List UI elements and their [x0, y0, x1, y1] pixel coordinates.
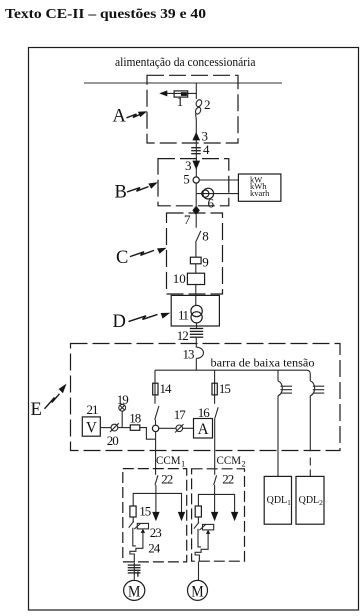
- label C zigzag arrow: [130, 248, 167, 257]
- wire: V box to fuse 20: [100, 427, 111, 429]
- QDL1 box: [264, 476, 291, 524]
- svg-text:6: 6: [208, 196, 215, 211]
- voltmeter box 21: [82, 417, 100, 436]
- middle spare arrow (CCM1): [152, 512, 159, 521]
- disconnect switch 8: [196, 231, 201, 242]
- wire: QDL feeder 2 to QDL2: [309, 396, 311, 477]
- svg-text:1: 1: [177, 94, 184, 109]
- fuse 15 (CCM1): [130, 506, 136, 517]
- wire: fuse to contactor (CCM1): [132, 517, 134, 522]
- bus bar: barra de baixa tensão: [155, 370, 310, 381]
- svg-text:M: M: [191, 584, 203, 601]
- drawout contact 13: [196, 347, 203, 358]
- svg-text:15: 15: [139, 504, 151, 519]
- wire: contactor drop (CCM1): [133, 528, 136, 546]
- svg-text:10: 10: [173, 271, 186, 286]
- wire: switch 8 to fuse 9: [195, 242, 197, 257]
- fuse 15: [212, 383, 217, 395]
- svg-text:23: 23: [150, 525, 162, 540]
- switch 22 blade (CCM1): [155, 475, 158, 485]
- component 9 (fuse): [190, 257, 201, 264]
- fuse 20 (slashed circle): [110, 423, 119, 432]
- svg-text:kvarh: kvarh: [250, 188, 270, 198]
- label D zigzag arrow: [129, 313, 171, 322]
- ammeter box 16: [194, 419, 213, 439]
- svg-text:21: 21: [87, 402, 99, 417]
- svg-text:9: 9: [202, 255, 209, 270]
- wire: fuse to contactor (CCM2): [197, 517, 199, 523]
- svg-text:alimentação da concessionária: alimentação da concessionária: [115, 55, 256, 69]
- svg-text:15: 15: [219, 381, 231, 396]
- svg-text:13: 13: [183, 347, 195, 362]
- contactor 23 (CCM1): [129, 521, 149, 537]
- drawout symbol on QDL feeder 1: [278, 381, 292, 396]
- thermal overload 24 (CCM1): [130, 538, 143, 563]
- thermal overload (CCM2): [195, 539, 208, 562]
- cable marker 12 (four ticks): [190, 329, 203, 338]
- wire: CCM1 to motor: [133, 562, 135, 579]
- potential tap 5: [193, 177, 199, 183]
- QDL feeder 1 drop: [277, 370, 279, 381]
- CCM1 boundary: [123, 469, 187, 562]
- svg-text:11: 11: [178, 308, 189, 323]
- switch 22 blade (CCM2): [214, 475, 217, 485]
- wire: tap 5 to meter: [199, 179, 238, 181]
- disconnect device 1 arrow head: [159, 90, 167, 96]
- component 10 (circuit breaker): [187, 273, 204, 284]
- svg-text:M: M: [128, 584, 140, 601]
- svg-text:CCM: CCM: [217, 455, 242, 467]
- switch blade below 15: [215, 407, 218, 418]
- svg-text:B: B: [115, 183, 127, 203]
- svg-text:5: 5: [183, 171, 190, 186]
- svg-text:CCM: CCM: [156, 455, 181, 467]
- wire: contactor drop (CCM2): [198, 529, 201, 547]
- wire: jog 18 to feeder: [140, 428, 156, 440]
- wire: utility supply line: [84, 82, 282, 84]
- disconnect device 1 body: [174, 91, 188, 97]
- wire: 13 to bus: [195, 358, 197, 370]
- right spare arrow (CCM2): [231, 512, 238, 521]
- svg-text:18: 18: [129, 411, 141, 426]
- svg-text:barra de baixa tensão: barra de baixa tensão: [211, 355, 315, 369]
- svg-text:QDL2: QDL2: [299, 495, 324, 507]
- svg-text:C: C: [116, 248, 128, 268]
- wire: switch 22 to tee and middle arrow: [155, 485, 157, 513]
- svg-text:22: 22: [161, 471, 173, 486]
- wire: 10 to transformer: [195, 285, 197, 306]
- wire: below fuse 2: [195, 114, 198, 148]
- wire: blade to node: [155, 420, 157, 425]
- wire: 9 to 10: [195, 264, 197, 273]
- tee header wire (CCM2): [198, 494, 234, 512]
- svg-text:22: 22: [222, 472, 234, 487]
- wire: branch arm of device 1: [167, 92, 197, 94]
- cable marker under CCM1: [128, 565, 141, 577]
- component 18: [130, 425, 140, 430]
- svg-text:16: 16: [198, 405, 211, 420]
- wire: into region B: [195, 147, 197, 177]
- drawout symbol on QDL feeder 2: [310, 381, 324, 396]
- svg-text:A: A: [198, 421, 210, 438]
- label B zigzag arrow: [127, 182, 158, 192]
- svg-text:D: D: [113, 312, 126, 332]
- motor M1: [124, 580, 145, 600]
- diamond node 7: [192, 206, 199, 216]
- svg-text:2: 2: [242, 458, 246, 468]
- feeder 14 drop: [154, 370, 156, 404]
- wire: CT 6 to meter: [196, 193, 238, 195]
- transformer 11: [191, 305, 202, 323]
- svg-text:17: 17: [174, 407, 187, 422]
- motor M2: [188, 580, 208, 600]
- switch blade below 14: [155, 406, 159, 420]
- label E zigzag arrow: [45, 384, 67, 409]
- svg-text:V: V: [86, 420, 98, 437]
- fuse 17 (slashed circle): [175, 424, 183, 432]
- region E boundary: [71, 344, 341, 451]
- region B boundary: [158, 159, 229, 206]
- svg-text:24: 24: [148, 541, 161, 556]
- arrow 3 (B entry, down): [192, 161, 200, 170]
- wire: B to C: [195, 183, 197, 228]
- right spare arrow (CCM1): [178, 512, 185, 521]
- middle spare arrow (CCM2): [211, 512, 218, 521]
- fuse 14: [153, 383, 158, 395]
- wire: CCM2 to motor: [198, 561, 200, 580]
- svg-text:8: 8: [202, 229, 209, 244]
- wire: node down to CCM1: [155, 432, 157, 475]
- svg-text:A: A: [113, 107, 127, 127]
- fuse link 2: [194, 99, 202, 115]
- tee header wire (CCM1): [133, 493, 181, 512]
- lamp 19: [119, 404, 126, 427]
- wire: A entry vertical: [195, 83, 197, 99]
- svg-text:QDL1: QDL1: [267, 495, 292, 507]
- QDL2 box: [296, 476, 324, 524]
- arrow 3 (incoming, up): [192, 132, 200, 140]
- svg-text:19: 19: [117, 392, 129, 407]
- region D boundary: [171, 295, 219, 326]
- svg-text:7: 7: [184, 212, 191, 227]
- wire: fuse 20 to rect 18: [118, 427, 131, 429]
- junction node (open circle): [152, 425, 158, 431]
- feeder 15 drop: [214, 370, 216, 404]
- wire: feeder 15 down to CCM2: [214, 418, 216, 474]
- svg-text:3: 3: [202, 128, 209, 143]
- fuse (CCM2): [195, 506, 201, 517]
- current transformer 6: [202, 188, 214, 199]
- contactor (CCM2): [194, 522, 214, 538]
- meter box: [238, 174, 281, 201]
- wire: transformer to ticks: [196, 323, 198, 328]
- svg-text:1: 1: [181, 458, 185, 468]
- region C boundary: [167, 213, 223, 294]
- svg-text:4: 4: [203, 142, 210, 157]
- svg-text:12: 12: [177, 328, 189, 343]
- svg-text:20: 20: [107, 433, 119, 448]
- CCM2 boundary: [192, 469, 245, 561]
- svg-text:14: 14: [160, 381, 173, 396]
- cable marker 4 (three ticks): [191, 148, 201, 154]
- wire: QDL feeder 1 to QDL1: [277, 396, 279, 477]
- svg-text:Texto CE-II – questões 39 e 40: Texto CE-II – questões 39 e 40: [5, 7, 206, 22]
- wire: switch 22 to tee and middle arrow (CCM2): [214, 485, 216, 513]
- wire: 17 to ammeter: [183, 427, 194, 429]
- region A boundary: [147, 75, 238, 143]
- svg-text:2: 2: [204, 97, 211, 112]
- svg-text:E: E: [31, 400, 42, 420]
- wire: node to slash 17: [159, 427, 176, 429]
- label A zigzag arrow: [127, 111, 148, 118]
- wire: ticks to drawout 13: [195, 337, 197, 347]
